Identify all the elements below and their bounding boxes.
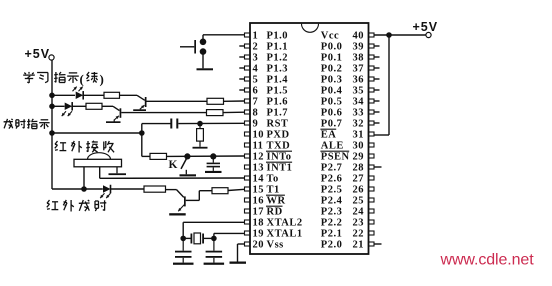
ground receiver leg [116, 167, 118, 174]
svg-text:P0.4: P0.4 [321, 86, 343, 97]
svg-text:33: 33 [353, 108, 365, 119]
LED D2 (transmit indicator) [65, 103, 73, 111]
svg-text:2: 2 [253, 42, 259, 53]
svg-text:P2.6: P2.6 [321, 174, 343, 185]
svg-text:10: 10 [253, 130, 265, 141]
svg-text:40: 40 [353, 31, 365, 42]
pin 25 stub (P2.4) [369, 198, 375, 202]
svg-text:39: 39 [353, 42, 365, 53]
wire stub pin 36 [374, 78, 380, 80]
svg-text:9: 9 [253, 119, 259, 130]
pin 14 stub (14 To) [245, 176, 251, 180]
ground R5 [193, 147, 208, 149]
svg-text:P1.7: P1.7 [267, 108, 289, 119]
crystal Y1 [191, 234, 193, 244]
svg-text:13: 13 [253, 163, 265, 174]
wire IR row left [84, 188, 103, 190]
wire R7 to Q3 collector [166, 189, 177, 191]
svg-text:INT1: INT1 [267, 163, 293, 174]
wire crystal right [204, 237, 214, 239]
svg-text:P2.4: P2.4 [321, 196, 343, 207]
wire pin40 Vcc to +5V [374, 34, 426, 36]
wire R6 to pin12 INT0 [167, 155, 245, 157]
svg-text:20: 20 [253, 240, 265, 251]
IC notch [302, 24, 319, 33]
ground C3 [173, 263, 194, 265]
node C2 [210, 153, 216, 159]
svg-text:5: 5 [253, 75, 259, 86]
svg-text:15: 15 [253, 185, 265, 196]
label text 红外发射 [47, 200, 50, 203]
pin 34 stub (P0.5) [369, 99, 375, 103]
svg-text:PSEN: PSEN [321, 152, 350, 163]
IR receiver dome [88, 153, 111, 160]
wire rail to LED D1 [52, 94, 75, 96]
svg-text:31: 31 [353, 130, 365, 141]
pin 5 stub (5 P1.4) [245, 77, 251, 81]
wire R8 to pin15 T1 [228, 189, 245, 190]
svg-text:EA: EA [321, 130, 337, 141]
node rail/LED1 [49, 93, 55, 99]
wire stub pin 5 [239, 78, 244, 80]
svg-text:34: 34 [353, 97, 365, 108]
wire stub pin 38 [374, 56, 380, 58]
wire stub pin 21 [374, 243, 382, 245]
svg-text:www.cdle.net: www.cdle.net [440, 252, 535, 269]
resistor R7 [144, 186, 166, 192]
wire pin19 XTAL1 [214, 232, 245, 234]
pin 20 stub (20 Vss) [245, 242, 251, 246]
svg-text:XTAL1: XTAL1 [267, 229, 303, 240]
op-amp U1: 8051 MCU 40-pin DIP body [250, 23, 369, 254]
svg-text:PXD: PXD [267, 130, 290, 141]
ground switch K [185, 170, 187, 175]
wire LED D1 to R1 [83, 94, 104, 96]
svg-text:P2.1: P2.1 [321, 229, 343, 240]
svg-text:37: 37 [353, 64, 365, 75]
wire stub pin 37 [374, 67, 380, 69]
pushbutton S1 actuator [194, 40, 196, 54]
pin 24 stub (P2.3) [369, 209, 375, 213]
node rail/LED2 [49, 104, 55, 110]
svg-text:24: 24 [353, 207, 365, 218]
ground C4 [204, 263, 225, 265]
wire R1 to Q1 base [120, 94, 138, 96]
transistor Q2 emitter [114, 116, 119, 120]
wire stub pin 39 [374, 45, 380, 47]
wire rail to LED D2 [52, 105, 65, 107]
wire rail to RST branch [52, 132, 142, 134]
svg-text:6: 6 [253, 86, 259, 97]
LED D2 arrows [62, 111, 66, 116]
IR receiver module body [74, 159, 122, 167]
node K switch [184, 153, 190, 159]
wire pin20 Vss [238, 243, 245, 245]
pin 15 stub (15 T1) [245, 187, 251, 191]
pin 4 stub (4 P1.3) [245, 66, 251, 70]
pin 3 stub (3 P1.2) [245, 55, 251, 59]
svg-text:RST: RST [267, 119, 289, 130]
svg-text:): ) [100, 72, 104, 87]
wire Q3 base to R8 [186, 199, 200, 201]
transistor Q1 [145, 97, 147, 107]
wire stub pin 32 [374, 122, 380, 124]
node junction Vcc/EA [386, 32, 392, 38]
wire LED D2 to R2 [72, 105, 86, 107]
ground Q1 emitter [133, 109, 146, 111]
LED D1 (learning indicator green) [76, 92, 84, 100]
pin 37 stub (P0.2) [369, 66, 375, 70]
wire stub pin 33 [374, 111, 380, 113]
pin 18 stub (18 XTAL2) [245, 220, 251, 224]
svg-text:P2.3: P2.3 [321, 207, 343, 218]
LED D3 arrows [100, 193, 104, 198]
svg-text:P1.6: P1.6 [267, 97, 289, 108]
svg-text:30: 30 [353, 141, 365, 152]
pin 22 stub (P2.1) [369, 231, 375, 235]
node XTAL2/C3 [180, 236, 186, 242]
svg-text:TXD: TXD [267, 141, 291, 152]
svg-text:+5V: +5V [25, 47, 51, 61]
resistor R3 [207, 98, 224, 104]
svg-text:P0.5: P0.5 [321, 97, 343, 108]
svg-text:P1.3: P1.3 [267, 64, 289, 75]
svg-text:26: 26 [353, 185, 365, 196]
pin 38 stub (P0.1) [369, 55, 375, 59]
transistor Q2 [120, 108, 122, 118]
wire to capacitor C1 [142, 123, 171, 125]
transistor Q1 emitter [140, 105, 145, 109]
ground C2 [205, 171, 222, 173]
svg-text:16: 16 [253, 196, 265, 207]
svg-text:4: 4 [253, 64, 259, 75]
svg-text:35: 35 [353, 86, 365, 97]
svg-text:7: 7 [253, 97, 259, 108]
wire crystal left [183, 237, 190, 239]
wire pin1 to pushbutton [203, 34, 245, 36]
wire stub pin 34 [374, 100, 380, 102]
wire rail bottom to IR row [52, 188, 84, 190]
svg-text:Vss: Vss [267, 240, 284, 251]
svg-text:P2.2: P2.2 [321, 218, 343, 229]
svg-text:14: 14 [253, 174, 265, 185]
svg-text:To: To [267, 174, 279, 185]
pin 31 stub (EA) [369, 132, 375, 136]
wire C1 to pin9 RST [178, 122, 244, 124]
wire +5V rail vertical [51, 60, 53, 189]
node RST/R5 [197, 121, 203, 127]
svg-text:25: 25 [353, 196, 365, 207]
svg-text:21: 21 [353, 240, 365, 251]
pin 35 stub (P0.4) [369, 88, 375, 92]
svg-text:P1.4: P1.4 [267, 75, 289, 86]
pin 32 stub (P0.7) [369, 121, 375, 125]
svg-text:P0.7: P0.7 [321, 119, 343, 130]
svg-text:12: 12 [253, 152, 265, 163]
pin 23 stub (P2.2) [369, 220, 375, 224]
wire stub pin 3 [239, 56, 244, 58]
pin 33 stub (P0.6) [369, 110, 375, 114]
svg-text:P1.2: P1.2 [267, 53, 289, 64]
transistor Q3 [184, 196, 186, 206]
LED D1 arrows [73, 87, 77, 92]
resistor R6 [150, 153, 167, 159]
pin 36 stub (P0.3) [369, 77, 375, 81]
resistor R4 [207, 110, 224, 116]
node RST branch [139, 130, 145, 136]
pin 16 stub (16 WR) [245, 198, 251, 202]
pushbutton S1 contacts [200, 39, 207, 46]
wire stub pin 6 [239, 89, 244, 91]
svg-text:P0.0: P0.0 [321, 42, 343, 53]
svg-text:27: 27 [353, 174, 365, 185]
svg-text:P0.6: P0.6 [321, 108, 343, 119]
svg-text:P2.5: P2.5 [321, 185, 343, 196]
svg-text:P2.0: P2.0 [321, 240, 343, 251]
wire pin18 XTAL2 [183, 221, 244, 223]
pin 28 stub (P2.7) [369, 165, 375, 169]
pin 39 stub (P0.0) [369, 44, 375, 48]
label text 发射指示 [4, 119, 7, 128]
svg-text:T1: T1 [267, 185, 280, 196]
svg-text:P1.1: P1.1 [267, 42, 289, 53]
svg-text:22: 22 [353, 229, 365, 240]
ground Vss [230, 262, 247, 264]
pin 6 stub (6 P1.5) [245, 88, 251, 92]
ground Q3 emitter [169, 213, 186, 215]
svg-text:ALE: ALE [321, 141, 344, 152]
wire stub pin 28 [374, 166, 382, 168]
pin 8 stub (8 P1.7) [245, 110, 251, 114]
svg-text:32: 32 [353, 119, 365, 130]
pin 13 stub (13 INT1) [245, 165, 251, 169]
node receiver/IR row [81, 186, 87, 192]
svg-text:P0.3: P0.3 [321, 75, 343, 86]
svg-text:P0.2: P0.2 [321, 64, 343, 75]
wire branch to R6 [142, 155, 150, 157]
resistor R8 [212, 188, 228, 194]
wire R2 to Q2 base [102, 105, 113, 107]
svg-text:23: 23 [353, 218, 365, 229]
pin 12 stub (12 INTo) [245, 154, 251, 158]
svg-text:K: K [169, 159, 178, 171]
svg-text:38: 38 [353, 53, 365, 64]
svg-text:11: 11 [253, 141, 264, 152]
svg-text:P1.5: P1.5 [267, 86, 289, 97]
svg-text:Vcc: Vcc [321, 31, 339, 42]
svg-text:29: 29 [353, 152, 365, 163]
wire EA tied to Vcc [388, 35, 390, 135]
wire stub pin 4 [239, 67, 244, 69]
svg-text:3: 3 [253, 53, 259, 64]
svg-text:8: 8 [253, 108, 259, 119]
wire receiver Vcc leg [83, 167, 85, 189]
resistor R5 (reset pulldown) [199, 124, 201, 129]
capacitor C2 [212, 156, 214, 162]
pin 27 stub (P2.6) [369, 176, 375, 180]
pin 40 stub (Vcc) [369, 33, 375, 37]
transistor Q3 emitter [178, 205, 184, 211]
wire stub pin 2 [239, 45, 244, 47]
svg-text:28: 28 [353, 163, 365, 174]
label text 学习指示(绿) [24, 73, 26, 74]
pin 10 stub (10 PXD) [245, 132, 251, 136]
ground pushbutton [197, 68, 214, 70]
svg-text:36: 36 [353, 75, 365, 86]
wire R4 to pin8 [223, 111, 245, 113]
LED D3 (IR emitter) [103, 185, 111, 193]
pin 9 stub (9 RST) [245, 121, 251, 125]
wire stub pin 35 [374, 89, 380, 91]
resistor R1 [104, 92, 120, 98]
svg-text:17: 17 [253, 207, 265, 218]
label text 红外接收 [55, 141, 58, 144]
svg-text:19: 19 [253, 229, 265, 240]
wire RST branch vertical [141, 124, 143, 157]
resistor R2 [86, 103, 102, 109]
svg-text:1: 1 [253, 31, 259, 42]
capacitor C1 (reset) [170, 119, 172, 129]
svg-text:18: 18 [253, 218, 265, 229]
svg-text:P1.0: P1.0 [267, 31, 289, 42]
pin 7 stub (7 P1.6) [245, 99, 251, 103]
svg-text:WR: WR [267, 196, 286, 207]
svg-text:INTo: INTo [267, 152, 292, 163]
svg-text:P2.7: P2.7 [321, 163, 343, 174]
capacitor C4 [213, 238, 215, 250]
svg-text:P0.1: P0.1 [321, 53, 343, 64]
wire Q1 collector to R3 [147, 100, 208, 102]
pin 30 stub (ALE) [369, 143, 375, 147]
capacitor C3 [182, 238, 184, 250]
wire Q2 collector to R4 [121, 112, 206, 114]
svg-text:RD: RD [267, 207, 283, 218]
ground Q2 emitter [106, 121, 121, 123]
wire receiver output to pin14 To [99, 167, 101, 179]
wire pushbutton to ground [202, 53, 204, 68]
pin 11 stub (11 TXD) [245, 143, 251, 147]
pin 19 stub (19 XTAL1) [245, 231, 251, 235]
node rail/RST [49, 130, 55, 136]
wire D3 to R7 [111, 188, 145, 190]
pin 26 stub (P2.5) [369, 187, 375, 191]
pin 2 stub (2 P1.1) [245, 44, 251, 48]
pin 21 stub (P2.0) [369, 242, 375, 246]
svg-text:(: ( [80, 72, 84, 87]
svg-text:+5V: +5V [413, 20, 439, 34]
pin 29 stub (PSEN) [369, 154, 375, 158]
switch K arm [181, 158, 187, 169]
pin 17 stub (17 RD) [245, 209, 251, 213]
pin 1 stub (1 P1.0) [245, 33, 251, 37]
node XTAL1/C4 [211, 236, 217, 242]
svg-text:XTAL2: XTAL2 [267, 218, 303, 229]
wire R3 to pin7 [224, 100, 245, 102]
